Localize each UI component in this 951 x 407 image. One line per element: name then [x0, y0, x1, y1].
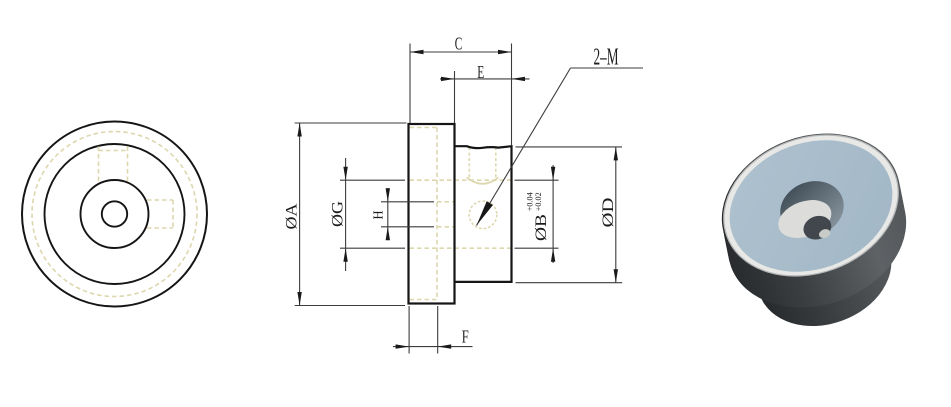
side view radial hole hidden circle (2-M)	[469, 201, 497, 229]
dimension F line with arrows	[393, 346, 473, 348]
dimension C extension lines	[409, 44, 411, 124]
dimension A line with arrows	[299, 123, 301, 306]
3D through hole	[800, 212, 835, 243]
3D flange front rim	[704, 111, 918, 299]
dimension E line with arrows	[440, 78, 530, 80]
3D body rear bulge	[735, 163, 899, 307]
svg-text:ØB: ØB	[533, 214, 550, 241]
dimension B line with arrows	[552, 165, 554, 263]
side view hidden bore G/B lines	[410, 179, 511, 181]
side view flange chamfer hidden lines	[410, 127, 438, 129]
svg-text:E: E	[477, 62, 484, 82]
dimension G extension lines	[340, 179, 405, 181]
svg-text:C: C	[455, 34, 463, 54]
front view outer circle (flange OD)	[22, 122, 207, 307]
3D top face	[711, 118, 911, 294]
dimension F extension lines	[408, 306, 410, 354]
front view right radial hole hidden lines	[147, 199, 173, 201]
leader 2-M	[571, 67, 644, 69]
svg-text:2–M: 2–M	[594, 45, 619, 71]
3D hole highlight	[818, 228, 832, 240]
3D flange cylinder	[701, 109, 920, 301]
3D counterbore wall	[772, 172, 851, 245]
svg-text:H: H	[371, 210, 386, 219]
svg-text:F: F	[462, 327, 469, 347]
3D counterbore floor	[773, 193, 837, 245]
front view top radial hole hidden lines	[98, 147, 100, 182]
front view body circle	[45, 144, 185, 284]
svg-text:+0.02: +0.02	[533, 192, 543, 211]
svg-text:ØG: ØG	[329, 201, 346, 227]
svg-text:ØD: ØD	[600, 198, 617, 228]
side view top hole bottom arc	[467, 178, 499, 184]
dimension G line with arrows	[345, 158, 347, 271]
front view center bore circle	[102, 201, 127, 226]
dimension A extension lines	[295, 122, 407, 124]
front view counterbore circle	[81, 180, 149, 248]
dimension H extension lines	[381, 201, 434, 203]
dimension D extension lines	[516, 146, 623, 148]
dimension E extension line	[454, 71, 456, 123]
side view hidden bore H lines	[437, 201, 455, 203]
front view chamfer dashed circle	[32, 132, 197, 297]
dimension H line with arrows	[387, 188, 389, 240]
side view flange outline	[409, 124, 455, 304]
svg-text:ØA: ØA	[283, 203, 300, 230]
dimension B extension lines	[515, 179, 559, 181]
dimension C line with arrows	[410, 51, 512, 53]
dimension D line with arrows	[615, 147, 617, 283]
side view body outline	[455, 146, 512, 282]
side view top hole hidden lines	[468, 147, 470, 180]
